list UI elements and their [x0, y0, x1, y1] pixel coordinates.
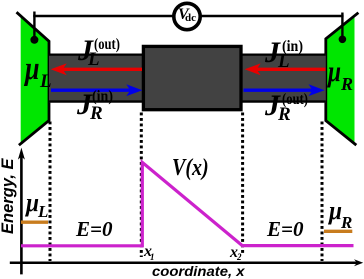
dotted boundary line left lead [49, 122, 52, 262]
label x2 [230, 245, 238, 261]
wire right vertical stub [341, 13, 343, 40]
y-axis arrowhead [18, 148, 25, 160]
lead left black edge (top, inner, bottom) [17, 12, 50, 145]
label mu_R in right lead [328, 57, 341, 87]
energy y-axis [20, 155, 23, 274]
scattering region box [143, 46, 241, 109]
node junction dot right [339, 36, 347, 44]
channel bar bottom edge [49, 100, 326, 102]
label V_dc in voltage source [178, 7, 189, 23]
channel bar top edge [49, 53, 326, 55]
label E=0 right region [267, 219, 303, 240]
voltage source V_dc circle [174, 3, 200, 29]
wire top-right horizontal [200, 15, 344, 17]
current arrow J_R(in) blue left [51, 88, 131, 91]
dotted boundary line right lead [321, 122, 324, 262]
potential V(x) magenta curve [21, 162, 354, 245]
current arrow J_L(out) red left [62, 68, 142, 71]
current arrow J_L(in) red right [256, 68, 326, 71]
channel bar (dark conductor) [49, 54, 326, 103]
label J_L(out) left top [78, 36, 93, 66]
coordinate x-axis [10, 262, 357, 265]
wire top-left horizontal [33, 15, 174, 17]
dotted boundary line box right x2 [241, 113, 244, 256]
label J_R(out) right bottom [265, 91, 280, 121]
label x1 [144, 244, 152, 260]
axis label Energy, E (rotated) [0, 159, 17, 235]
chemical potential mu_L level (orange) [21, 220, 48, 223]
wire left vertical stub [33, 12, 35, 40]
axis label coordinate, x [152, 264, 245, 278]
label J_L(in) right top [265, 38, 280, 68]
label V(x) potential [172, 155, 209, 179]
lead right (green contact) [326, 16, 355, 143]
label mu_L in left lead [25, 53, 40, 86]
current arrow J_R(out) blue right [244, 88, 314, 91]
dotted boundary line box left x1 [140, 113, 143, 258]
label mu_L energy level [26, 190, 39, 216]
label J_R(in) left bottom [77, 90, 92, 120]
lead right black edge (top, inner, bottom) [326, 13, 359, 145]
x-axis arrowhead [354, 259, 363, 266]
node junction dot left [30, 36, 38, 44]
lead left (green contact) [21, 16, 49, 144]
chemical potential mu_R level (orange) [324, 230, 352, 233]
label E=0 left region [76, 219, 112, 240]
label mu_R energy level [329, 198, 342, 224]
